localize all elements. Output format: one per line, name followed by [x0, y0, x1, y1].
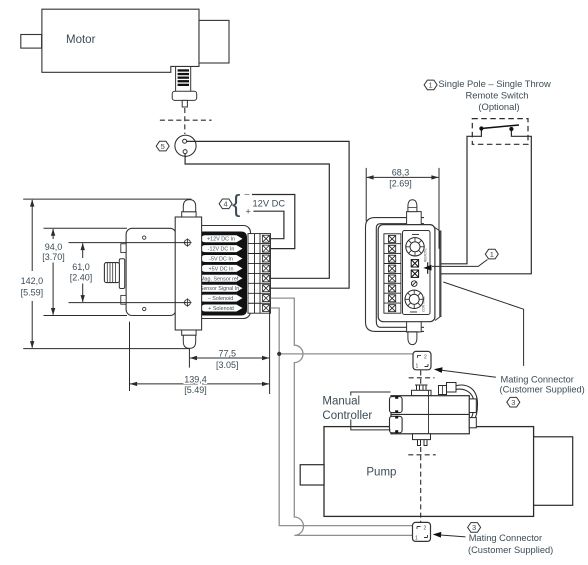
wire: plus solenoid down to pump connector pin2 — [271, 308, 413, 526]
svg-text:2: 2 — [424, 354, 427, 360]
remote bracket — [366, 218, 425, 332]
hexagon 1 top — [424, 80, 437, 90]
remote bottom stem — [407, 321, 422, 332]
hexagon 5 — [156, 141, 169, 151]
svg-text:+5V DC In: +5V DC In — [208, 266, 233, 272]
SOLENOID WIRES (gray) — [271, 298, 413, 535]
dim 61 extension bottom — [69, 302, 187, 304]
remote dial bottom — [405, 290, 423, 308]
valve top block prongs — [417, 385, 427, 390]
terminal screws — [263, 235, 270, 311]
side connector knob — [104, 263, 119, 283]
pump body — [324, 427, 534, 517]
svg-text:Controller: Controller — [322, 410, 372, 422]
dim 139.4 extension left — [129, 322, 131, 391]
dim 94 extension top — [44, 227, 128, 229]
right side block upper — [469, 399, 476, 413]
dim 77.5 extension left — [188, 349, 190, 368]
remote main body — [378, 225, 435, 322]
terminal strip — [248, 234, 271, 314]
svg-text:(Customer Supplied): (Customer Supplied) — [468, 545, 553, 555]
right side block lower — [469, 418, 476, 428]
side connector flange — [119, 259, 124, 289]
svg-text:[3.70]: [3.70] — [42, 252, 65, 262]
switch dashed box — [472, 119, 528, 145]
controller mounting plate — [126, 228, 176, 315]
plate side tab top — [121, 244, 126, 253]
motor body — [42, 9, 199, 72]
svg-text:+: + — [246, 207, 251, 217]
svg-text:{: { — [232, 190, 240, 218]
remote right panel — [403, 231, 431, 315]
REMOTE-GROUP — [366, 168, 441, 345]
svg-text:+12V DC In: +12V DC In — [207, 237, 235, 243]
remote top stem — [407, 212, 422, 225]
wire: minus 12V to -12VDC terminal — [252, 195, 295, 249]
wire: switch right pole down to remote — [441, 131, 531, 274]
body bolt top — [183, 238, 191, 246]
svg-text:– Solenoid: – Solenoid — [208, 296, 233, 302]
top right fitting B — [439, 386, 447, 395]
dim 94 extension bottom — [44, 315, 128, 317]
dim 94 line — [52, 229, 54, 239]
SWITCH-GROUP — [423, 78, 551, 274]
dim 77.5/139.4 extension right — [269, 307, 271, 394]
svg-text:Motor: Motor — [66, 34, 96, 46]
leader: manual controller label top — [351, 392, 391, 396]
motor shaft — [21, 35, 42, 49]
12V DC source label group — [219, 189, 285, 218]
svg-text:Sensor Signal In: Sensor Signal In — [200, 286, 240, 292]
svg-text:[3.05]: [3.05] — [216, 360, 239, 370]
remote terminal screws — [389, 235, 396, 311]
hexagon 1 mid leader — [432, 260, 488, 267]
svg-text:2: 2 — [424, 526, 427, 532]
valve body section line — [428, 390, 430, 434]
svg-text:3: 3 — [472, 523, 476, 532]
remote right wall depth — [435, 228, 441, 321]
wire: plus 12V to +12VDC terminal — [253, 211, 284, 239]
valve main body — [391, 396, 469, 434]
motor right housing — [199, 20, 229, 63]
switch lever — [481, 125, 519, 129]
svg-text:-12V DC In: -12V DC In — [208, 247, 235, 253]
body bottom dome — [183, 335, 195, 348]
arrow: label to remote mating connector — [438, 370, 496, 377]
dashed centerline: remote connector to manual controller — [408, 371, 435, 523]
svg-text:1: 1 — [415, 535, 418, 541]
svg-text:3: 3 — [511, 398, 515, 407]
svg-text:68,3: 68,3 — [392, 168, 410, 178]
svg-text:4: 4 — [224, 200, 228, 209]
CONTROLLER-GROUP — [104, 200, 270, 349]
svg-text:1: 1 — [416, 364, 419, 370]
svg-text:[2.69]: [2.69] — [389, 178, 412, 188]
svg-text:Single Pole – Single Throw: Single Pole – Single Throw — [438, 78, 551, 89]
body bolt bottom — [183, 298, 191, 306]
svg-text:Mag. Sensor ref.: Mag. Sensor ref. — [200, 276, 240, 282]
svg-text:1: 1 — [429, 81, 433, 90]
svg-text:CONTROL: CONTROL — [422, 296, 426, 312]
body top neck — [182, 212, 196, 217]
controller black label panel — [197, 232, 247, 316]
PUMP-GROUP — [300, 427, 572, 517]
svg-text:142,0: 142,0 — [21, 276, 44, 286]
connector 5 circle — [175, 135, 196, 156]
svg-text:▬▬: ▬▬ — [410, 310, 418, 314]
plate screw top — [143, 236, 146, 239]
svg-text:Mating Connector: Mating Connector — [501, 375, 574, 385]
valve bottom block — [413, 434, 431, 440]
svg-text:REMOTE: REMOTE — [424, 248, 428, 262]
svg-text:–: – — [245, 189, 250, 199]
svg-text:Remote Switch: Remote Switch — [465, 90, 528, 101]
dim 61 line — [82, 243, 84, 258]
svg-text:[5.49]: [5.49] — [184, 385, 207, 395]
dim 68.3 extension right — [438, 168, 440, 249]
svg-text:(Optional): (Optional) — [478, 101, 519, 112]
top right fitting A — [447, 383, 457, 393]
dim 139.4 line — [130, 383, 269, 385]
svg-text:[5.59]: [5.59] — [21, 288, 44, 298]
valve top block — [412, 390, 432, 395]
remote bottom dome — [408, 332, 417, 345]
dashed centerline: manual controller to pump connector — [420, 447, 422, 522]
svg-text:61,0: 61,0 — [72, 262, 90, 272]
junction dot — [277, 352, 281, 356]
dim 68.3 line — [367, 176, 439, 178]
plate screw bottom — [143, 307, 146, 310]
valve body midline — [391, 413, 469, 415]
left cap bottom — [390, 416, 403, 433]
connector stem — [182, 100, 187, 107]
pump left port — [300, 465, 324, 485]
svg-text:Manual: Manual — [322, 396, 360, 408]
remote small screw — [411, 281, 417, 287]
hexagon 3 bottom — [468, 523, 481, 533]
pump right housing — [534, 437, 573, 506]
svg-text:-5V DC In: -5V DC In — [209, 257, 233, 263]
wire: minus solenoid down to pump connector pin1 (with hops) — [271, 298, 413, 535]
dim 142 extension bottom — [23, 348, 189, 350]
wire: branch junction to remote mating connector — [279, 353, 413, 355]
LABELS-RIGHT — [433, 282, 585, 555]
left cap top — [390, 397, 403, 413]
leader: manual controller label bottom — [351, 420, 391, 430]
label tags — [199, 235, 243, 312]
svg-text:12V DC: 12V DC — [253, 198, 286, 208]
wire: connector5 bottom pin to mag sensor ref — [185, 154, 329, 279]
dim 61 extension top — [69, 242, 187, 244]
DIMENSIONS-LEFT — [23, 199, 191, 349]
DIMENSIONS-BOTTOM — [130, 307, 270, 394]
wire: switch left pole down to remote — [441, 131, 481, 264]
remote terminal column — [384, 234, 401, 313]
mating plane dashed lines — [160, 108, 212, 134]
body top dome — [183, 200, 195, 212]
controller backing card — [178, 226, 251, 319]
remote dial top — [406, 238, 424, 256]
svg-text:▬▬: ▬▬ — [412, 232, 420, 236]
remote switch terminal screws — [411, 260, 418, 278]
wire: connector5 top pin to sensor signal in — [187, 141, 350, 288]
leader: remote to mating connector label — [443, 282, 523, 366]
dim 142 line — [31, 200, 33, 271]
svg-text:+ Solenoid: + Solenoid — [208, 306, 234, 312]
dim 142 extension top — [23, 198, 191, 200]
controller central body — [175, 217, 201, 330]
MOTOR-GROUP — [21, 9, 229, 72]
cap tick marks — [395, 396, 398, 433]
pump mating connector box — [413, 522, 431, 541]
hose — [451, 385, 478, 428]
switch pole dots — [479, 126, 483, 130]
svg-text:Pump: Pump — [366, 466, 396, 478]
svg-text:5: 5 — [161, 142, 165, 151]
hexagon 3 mid — [507, 397, 520, 407]
hexagon 4 — [219, 199, 232, 209]
dim 77.5 line — [190, 357, 269, 359]
svg-text:Mating Connector: Mating Connector — [469, 533, 542, 543]
bottom prongs — [418, 440, 428, 446]
dim 68.3 extension left — [365, 168, 367, 222]
MANUAL-CONTROLLER-GROUP — [390, 383, 478, 446]
plate side tab bottom — [121, 295, 126, 304]
svg-text:(Customer Supplied): (Customer Supplied) — [500, 384, 585, 394]
motor cable striped connector — [172, 66, 197, 107]
body bottom neck — [182, 330, 196, 335]
arrow: label to pump mating connector — [437, 535, 466, 537]
connector body — [172, 91, 197, 100]
remote top dome — [408, 200, 417, 212]
svg-text:139,4: 139,4 — [184, 375, 207, 385]
svg-text:1: 1 — [490, 250, 494, 259]
svg-text:94,0: 94,0 — [45, 242, 63, 252]
svg-text:77,5: 77,5 — [219, 349, 237, 359]
svg-text:[2.40]: [2.40] — [70, 273, 93, 283]
remote mating connector box — [413, 351, 431, 369]
hexagon 1 mid — [485, 249, 498, 259]
